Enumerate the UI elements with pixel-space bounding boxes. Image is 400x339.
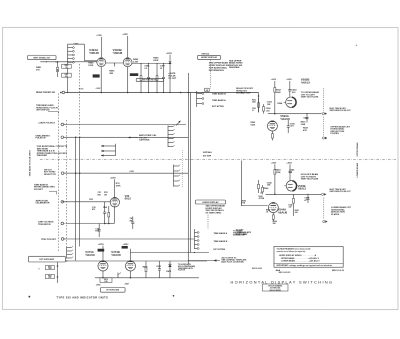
svg-text:BEAM FINDER SW: BEAM FINDER SW: [36, 91, 56, 94]
node bus junction 2: [180, 92, 189, 94]
switch SW490 input ladder: [68, 44, 75, 63]
node junction under R489: [55, 61, 58, 63]
resistor R493 between tubes: [109, 63, 115, 75]
wire unblanking row: [64, 136, 188, 138]
connector line trigger: [61, 222, 65, 225]
text drafter initials: [276, 269, 281, 272]
cathode V494A to bus: [100, 67, 102, 94]
power +100V lower cluster: [271, 162, 277, 194]
text additional contacts note: [37, 145, 68, 157]
wire bottom out arrow: [188, 259, 220, 261]
waveform flag V474A: [98, 249, 105, 252]
power +225V diode feed: [166, 53, 173, 61]
connector amplitude calibrator: [61, 200, 65, 203]
resistor R547 divider: [292, 194, 299, 216]
svg-text:EXT ATTEN: EXT ATTEN: [213, 248, 225, 251]
vertical text LOWER BEAM: [356, 163, 359, 178]
svg-text:VERT SIGNAL OUT: VERT SIGNAL OUT: [33, 56, 51, 59]
resistor R593 under V593A: [271, 131, 273, 140]
resistor R32 label: [89, 199, 94, 201]
cathode V474A drop: [102, 271, 104, 278]
tube V593A label: [280, 114, 290, 121]
svg-text:100K: 100K: [88, 65, 94, 67]
power +350V upper cluster: [286, 79, 292, 97]
text bracket under tba note: [48, 112, 59, 114]
svg-text:C563: C563: [252, 108, 256, 110]
power +225V feed V474A: [98, 244, 105, 262]
svg-text:SOCKET: SOCKET: [34, 189, 44, 191]
svg-text:IMPORTANT: voltage readings ar: IMPORTANT: voltage readings are typical …: [277, 264, 334, 267]
svg-text:.047: .047: [288, 206, 291, 209]
ganged switch dashed line: [57, 93, 59, 251]
capacitor C544 label: [288, 204, 292, 209]
tube V474A label: [85, 250, 95, 257]
diode D497: [169, 61, 172, 92]
resistor R564 label: [277, 102, 283, 105]
svg-text:+225V: +225V: [123, 244, 130, 246]
svg-text:EXT ATTEN: EXT ATTEN: [212, 105, 224, 108]
svg-text:560: 560: [295, 212, 298, 214]
connector upper beam crt: [322, 137, 327, 139]
capacitor C30 under V33: [92, 202, 106, 224]
resistor R494 label: [88, 61, 94, 66]
resistor R472 cluster: [143, 261, 149, 278]
waveform flag black label right: [130, 73, 138, 76]
svg-text:½6AU8: ½6AU8: [85, 253, 95, 257]
label box VERT SIGNAL OUT: [28, 55, 57, 59]
black label on h11 row: [122, 246, 128, 249]
svg-text:PLATES: PLATES: [331, 132, 340, 135]
svg-text:PULSE IN: PULSE IN: [36, 137, 46, 139]
svg-text:INFORMATION: INFORMATION: [209, 69, 224, 72]
resistor R496 drop: [153, 56, 159, 92]
resistor R590 label: [301, 122, 307, 126]
wire bottom cathode bus: [95, 277, 199, 279]
wire gate pulse a row: [64, 123, 186, 125]
svg-text:½6AU8: ½6AU8: [278, 210, 288, 214]
svg-text:SWP MAG: SWP MAG: [203, 151, 212, 154]
svg-text:UNIT DISPLAY: UNIT DISPLAY: [36, 108, 50, 111]
registration mark bottom left: [28, 296, 30, 298]
svg-text:SWITCHING PULSE OUT: SWITCHING PULSE OUT: [329, 191, 351, 193]
svg-text:CATHODE: CATHODE: [139, 138, 150, 141]
resistor R401 value box: [45, 265, 54, 270]
text +GATE PULSE A: [38, 121, 55, 124]
wire selector row: [64, 172, 188, 174]
power +225V feed V494B: [122, 34, 128, 57]
resistor stack left of V544: [241, 180, 265, 205]
ganged switch dashed line 2: [65, 120, 67, 246]
op-amp tube V474B: [125, 261, 135, 271]
label box SEE HORIZ SW: [136, 78, 163, 81]
node bus junction 1: [60, 92, 62, 94]
svg-text:½6AU8: ½6AU8: [111, 253, 121, 257]
wire arrow into cal text: [128, 136, 138, 138]
svg-text:EXT SWP: EXT SWP: [203, 155, 212, 157]
svg-text:SW 10-22-53: SW 10-22-53: [279, 272, 292, 274]
node GD box on bus: [205, 88, 210, 92]
resistor R567 label: [303, 127, 309, 131]
svg-text:CALIBRATOR: CALIBRATOR: [35, 202, 49, 205]
registration mark bottom center: [173, 295, 175, 297]
switch ladder gate B: [173, 164, 180, 186]
text TIME BASE A: [212, 99, 226, 102]
node A marker: [260, 191, 262, 194]
resistor R488 label: [36, 66, 42, 71]
svg-text:ATTEN: ATTEN: [259, 197, 265, 200]
svg-text:TRIG PICKOFF: TRIG PICKOFF: [41, 239, 57, 241]
svg-text:1M: 1M: [104, 194, 107, 196]
text BEAM FINDER SW: [36, 91, 56, 94]
wire top grid feed: [68, 44, 97, 61]
text to dc note: [79, 88, 85, 90]
cathode V494B to bus: [127, 67, 129, 94]
text upper beam crt block: [331, 125, 351, 135]
svg-text:UPPER BEAM . . . . . . . . . .: UPPER BEAM . . . . . . . . . . . . +225 …: [281, 257, 320, 260]
resistor R544 under V544A: [266, 208, 277, 224]
wire line trigger row: [66, 223, 110, 225]
vertical text plug-in units: [29, 150, 32, 177]
tube V494A label: [89, 48, 99, 55]
wire SW500 spine B: [189, 92, 191, 252]
wire attenuator to V494A grid: [71, 61, 97, 63]
svg-text:VERT SIG PLATE: VERT SIG PLATE: [301, 178, 319, 181]
op-amp tube V474A: [98, 261, 108, 271]
diode tube V545B: [284, 181, 296, 191]
svg-text:DIAGRAM: DIAGRAM: [37, 154, 47, 157]
wire sw feed to lower amp: [241, 161, 267, 207]
power +225V feed V474B: [123, 244, 131, 262]
svg-text:SW-500 SERIES: SW-500 SERIES: [270, 290, 281, 292]
dashed link SW503: [210, 60, 212, 89]
svg-text:PLATES: PLATES: [331, 213, 340, 216]
svg-text:R563: R563: [252, 100, 256, 102]
text checker initials: [332, 270, 345, 272]
capacitor C566 label: [266, 108, 272, 112]
power +350V lower cluster: [286, 162, 292, 180]
text TIME BASE B mid: [213, 240, 227, 243]
capacitor C567 drop: [303, 113, 309, 122]
ganged switch dashed line 3: [78, 64, 80, 136]
svg-text:VOLTAGE READINGS were obtained: VOLTAGE READINGS were obtained with: [277, 248, 311, 251]
svg-text:+GATE PULSE A: +GATE PULSE A: [38, 121, 55, 124]
tube V593B label: [301, 78, 311, 85]
tube V544A label: [278, 207, 288, 214]
svg-text:VERT SIG PLATE: VERT SIG PLATE: [301, 96, 319, 99]
resistor R33 label: [116, 183, 121, 187]
cathode V474B drop: [129, 271, 131, 278]
text line voltage trigger: [38, 221, 54, 226]
dashed terminal link lower: [323, 198, 325, 219]
svg-text:SELECTOR: SELECTOR: [44, 174, 56, 176]
cathode V33 drop: [105, 206, 115, 224]
text pin lateral note: [221, 256, 247, 263]
capacitor C546 label: [267, 181, 273, 186]
diode tube V593B: [284, 97, 296, 107]
svg-text:+350V: +350V: [286, 79, 292, 81]
wire vertical pair B: [79, 137, 81, 246]
svg-text:(ADJ PLUG LOCATION): (ADJ PLUG LOCATION): [221, 261, 244, 264]
svg-text:TIME BASE PLUG-IN UNITS: TIME BASE PLUG-IN UNITS: [29, 150, 32, 177]
svg-text:½6AU8: ½6AU8: [280, 117, 290, 121]
text holdoff beam note: [301, 173, 319, 181]
svg-text:UPPER BEAM: UPPER BEAM: [356, 142, 359, 156]
dashed terminal link upper: [323, 88, 325, 111]
svg-text:TRIGGER IN: TRIGGER IN: [38, 224, 51, 226]
switch contacts mid-left arrows: [101, 144, 116, 157]
svg-text:+225V: +225V: [166, 53, 173, 55]
wire SW500 spine A: [187, 73, 189, 264]
power +100V upper cluster: [271, 79, 277, 113]
svg-text:LOWER BEAM: LOWER BEAM: [356, 163, 359, 178]
text time base a display note: [36, 104, 58, 111]
wire lower output row: [266, 194, 321, 196]
svg-text:+100V: +100V: [129, 171, 135, 173]
svg-text:2.2M: 2.2M: [133, 61, 138, 63]
wire upper output row: [268, 113, 322, 115]
text EXT ATTEN mid: [213, 248, 225, 251]
svg-text:LOWER BEAM . . . . . . . . . .: LOWER BEAM . . . . . . . . . . . . +225 …: [281, 259, 320, 262]
connector mult trace lower: [321, 193, 326, 195]
power +100V feed V494A: [96, 35, 102, 57]
svg-text:+350V: +350V: [286, 162, 292, 164]
wire trig pickoff row: [64, 238, 194, 240]
svg-text:15K: 15K: [267, 185, 271, 187]
label box EXT HORIZ GAIN: [100, 287, 125, 292]
potentiometer R476: [100, 272, 121, 282]
text date code: [279, 272, 292, 274]
resistor R489 chain: [57, 62, 59, 77]
dotted linkage line: [181, 150, 183, 187]
text selector rows: [44, 168, 56, 176]
switch ladder mid contacts: [194, 229, 199, 249]
svg-text:15K: 15K: [267, 104, 271, 106]
capacitor C548 drop: [304, 194, 310, 203]
svg-text:+225V: +225V: [122, 34, 128, 36]
text type 555 footer: [56, 296, 108, 299]
voltage readings box: [274, 247, 343, 268]
text SW503: [201, 54, 209, 56]
svg-text:½6DJ8: ½6DJ8: [113, 51, 123, 55]
waveform flag black label left: [93, 74, 100, 77]
svg-text:MRH 10-2-53: MRH 10-2-53: [332, 270, 345, 272]
text swp mag rows: [203, 151, 212, 157]
capacitor C564 label: [267, 101, 273, 106]
svg-text:EXT HORIZ AMP: EXT HORIZ AMP: [39, 258, 54, 261]
svg-text:TIME BASE B: TIME BASE B: [213, 240, 227, 243]
capacitor C497 drop: [160, 63, 166, 93]
switch contacts time base row: [197, 91, 204, 107]
switch ladder bottom left: [67, 246, 73, 259]
svg-text:220K: 220K: [153, 60, 159, 62]
svg-text:SW 10-22-52: SW 10-22-52: [252, 268, 262, 270]
resistor R592 label: [276, 89, 282, 93]
svg-text:+100V: +100V: [96, 35, 102, 37]
svg-text:TIME BASE A: TIME BASE A: [212, 99, 226, 102]
capacitor C490 label: [74, 42, 80, 45]
connector selector: [61, 172, 65, 175]
resistor R402 value box: [45, 274, 54, 279]
connector mult trace upper: [322, 112, 327, 114]
svg-text:TO CRT: TO CRT: [168, 78, 177, 80]
text block sw503 note column2: [229, 60, 243, 69]
power +100V under tube: [96, 88, 102, 90]
title HORIZONTAL DISPLAY SWITCHING: [231, 280, 333, 285]
resistor R491 value box: [62, 73, 72, 78]
svg-text:HORIZ DISPLAY SW500. . . . .: HORIZ DISPLAY SW500. . . . . . . . . . .…: [279, 254, 317, 257]
svg-text:+100V: +100V: [96, 88, 102, 90]
op-amp tube V494A: [97, 58, 106, 67]
power +225V feed V33: [110, 177, 117, 197]
wire from vert sig box: [40, 61, 71, 62]
wire ladder to grid resistors: [67, 63, 68, 93]
node unblank junctions: [75, 137, 81, 139]
wire bottom grid bus: [65, 260, 207, 261]
svg-text:SWITCHING PULSE OUT: SWITCHING PULSE OUT: [330, 110, 352, 112]
svg-text:6AL5: 6AL5: [125, 197, 132, 201]
wire main cathode bus: [62, 91, 259, 94]
label box HORIZ DISPLAY top: [198, 55, 221, 59]
text time base b socket note: [34, 183, 55, 191]
svg-text:27K: 27K: [36, 69, 40, 71]
svg-text:+225V: +225V: [98, 244, 105, 246]
resistor R546 label: [264, 187, 270, 190]
power label near C41: [129, 171, 135, 173]
capacitor C472 cluster: [156, 261, 162, 278]
op-amp tube V494B: [123, 58, 132, 67]
svg-text:HORIZ DISPLAY: HORIZ DISPLAY: [201, 56, 218, 59]
wire V494A plate to V494B: [106, 62, 124, 64]
resistor R562 labels: [250, 122, 256, 126]
text block upper-beam note: [209, 61, 230, 71]
dashed beam separator line: [40, 158, 396, 160]
svg-text:PLUG-IN: PLUG-IN: [178, 270, 186, 272]
svg-text:OF SWITCHING: OF SWITCHING: [205, 212, 221, 214]
capacitor C590 column: [287, 120, 296, 133]
text mult trace lower: [329, 188, 351, 193]
tube V545B label: [298, 184, 307, 191]
connector lower beam crt: [323, 220, 328, 222]
capacitor C34 network: [95, 223, 100, 237]
capacitor C496 drop: [144, 63, 150, 93]
wire pickoff bus segment: [130, 252, 209, 253]
switch ladder gate A: [168, 121, 181, 147]
capacitor C31 R31 labels: [98, 192, 109, 196]
text date code 2: [252, 268, 262, 270]
svg-text:TIME BASE A: TIME BASE A: [213, 232, 227, 235]
wire V494B plate output: [132, 62, 170, 64]
capacitor C41 column: [130, 216, 135, 229]
text amplitude cal to crt: [139, 134, 157, 142]
svg-text:220K: 220K: [301, 124, 306, 126]
wire bus drop to V593 cluster: [258, 93, 260, 113]
svg-text:3: 3: [38, 269, 39, 271]
title block box: [262, 284, 288, 292]
text lower beam crt block: [331, 206, 352, 216]
resistor stack left of V593: [252, 95, 264, 113]
text TIME BASE A mid: [213, 232, 227, 235]
resistor R495 drop: [133, 58, 142, 93]
text to sweep note: [233, 230, 247, 236]
svg-text:+225V: +225V: [110, 177, 117, 179]
diode D473: [166, 261, 172, 278]
tube V494B label: [113, 48, 123, 55]
text TIME BASE B: [212, 93, 226, 96]
wire cal row: [62, 201, 110, 203]
registration mark top right: [356, 43, 358, 47]
connector unblanking: [61, 136, 65, 139]
text EXT ATTEN: [212, 105, 224, 108]
svg-text:HORIZ DISPLAY: HORIZ DISPLAY: [202, 201, 219, 204]
node bus junction 3: [241, 92, 243, 94]
svg-text:01: 01: [252, 110, 254, 112]
text gate pulse to crt: [168, 72, 177, 80]
label box EXT HORIZ AMP: [28, 256, 65, 262]
tube V474B label: [111, 250, 121, 257]
wire ext horiz drop: [57, 262, 59, 283]
svg-text:NORMAL SWP: NORMAL SWP: [233, 234, 246, 237]
text block horiz display note: [205, 205, 224, 215]
op-amp tube V33: [110, 197, 119, 207]
svg-text:CIRCUIT NUMBERS: CIRCUIT NUMBERS: [268, 285, 282, 287]
svg-text:470K: 470K: [116, 184, 121, 187]
svg-text:½6AL5: ½6AL5: [298, 187, 307, 191]
connector +gate pulse a: [61, 123, 65, 126]
svg-text:TIME BASE B: TIME BASE B: [212, 93, 226, 96]
capacitor C545 label: [289, 168, 295, 173]
tube V33 label: [125, 194, 132, 201]
resistor R490 value box: [62, 64, 72, 69]
text to crt lower plate: [236, 230, 252, 237]
vertical text UPPER BEAM: [356, 142, 359, 156]
text delay pickoff: [236, 87, 254, 95]
op-amp tube V593A: [267, 121, 277, 131]
pin number 3: [38, 269, 39, 271]
svg-text:47K: 47K: [303, 129, 307, 132]
svg-text:+100V: +100V: [271, 162, 277, 164]
svg-text:½6DJ8: ½6DJ8: [89, 51, 99, 55]
dashed terminal link upper2: [323, 117, 325, 136]
svg-text:DIAGRAM: DIAGRAM: [229, 66, 239, 69]
text UNBLANKING PULSE IN: [36, 134, 51, 139]
svg-text:39K: 39K: [109, 73, 113, 75]
node selector junction: [75, 172, 81, 174]
text to upper beam crt: [301, 91, 319, 99]
label box HORIZ DISPLAY mid: [195, 200, 225, 204]
resistor R34 under V33: [103, 206, 110, 224]
dashed link display mid: [207, 215, 209, 229]
resistor R543 label: [275, 168, 281, 173]
text trig pickoff: [41, 239, 57, 241]
connector trig pickoff: [61, 238, 65, 241]
capacitor C592 label: [291, 89, 297, 93]
op-amp tube V544A: [268, 202, 278, 212]
svg-text:TYPE 555 AND INDICATOR UNITS: TYPE 555 AND INDICATOR UNITS: [56, 296, 108, 299]
text to mult unit: [178, 263, 195, 272]
wire vertical pair A: [75, 137, 77, 260]
svg-text:100K: 100K: [250, 125, 255, 127]
svg-text:½6AL5: ½6AL5: [301, 81, 311, 85]
node bus drop dots: [140, 92, 170, 93]
text R476 adj left: [96, 283, 101, 286]
text amplitude calibrator: [35, 199, 49, 204]
svg-text:NORMAL SWP: NORMAL SWP: [236, 92, 251, 95]
wire socket bracket: [49, 191, 57, 194]
svg-text:+100V: +100V: [271, 79, 277, 81]
text mult trace upper: [330, 107, 352, 112]
svg-text:470K: 470K: [275, 171, 281, 174]
svg-text:100K: 100K: [276, 92, 282, 94]
